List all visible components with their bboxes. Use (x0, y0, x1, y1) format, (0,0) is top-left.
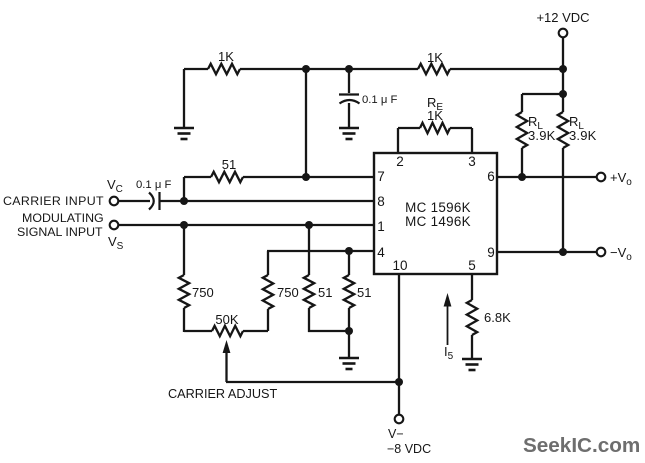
svg-text:MC 1596K: MC 1596K (405, 200, 471, 215)
node top-rail / bypass cap (345, 65, 353, 73)
svg-text:10: 10 (392, 258, 407, 273)
pin 4 label (377, 245, 385, 260)
wire bypass cap top lead (348, 69, 350, 93)
svg-text:51: 51 (222, 157, 236, 172)
wire RL right top lead (562, 94, 564, 112)
wire wiper to V- node (226, 381, 399, 383)
terminal V- (395, 415, 404, 424)
resistor 750 (left) (179, 275, 214, 308)
wire 750 left to pot (183, 308, 185, 332)
ground (51 resistors) (339, 358, 359, 369)
op-amp/IC U1 MC1596K box (374, 153, 497, 274)
wire pin9 rail (497, 251, 597, 253)
wire RL right to pin9 node (562, 148, 564, 252)
wire 51 bottom L to ground node (308, 308, 349, 332)
wire pin8 rail (161, 200, 375, 202)
label MODULATING (22, 211, 104, 225)
svg-text:V−: V− (388, 427, 404, 441)
svg-text:1K: 1K (427, 108, 443, 123)
svg-text:8: 8 (377, 194, 385, 209)
svg-text:+12 VDC: +12 VDC (536, 10, 589, 25)
svg-text:750: 750 (192, 285, 214, 300)
wire Vs node down to 750 (183, 225, 185, 275)
terminal Vs modulating input (108, 221, 124, 252)
svg-text:7: 7 (377, 169, 385, 184)
svg-text:1: 1 (377, 219, 385, 234)
wire top rail middle (240, 68, 418, 70)
wire RL left bottom lead (521, 148, 523, 177)
power terminal +12 VDC (536, 10, 589, 37)
svg-text:1K: 1K (218, 49, 234, 64)
wire 51 bottom lead (348, 308, 350, 331)
capacitor 0.1uF (bypass) (339, 94, 397, 106)
svg-text:2: 2 (396, 154, 404, 169)
svg-text:3: 3 (468, 154, 476, 169)
svg-text:9: 9 (487, 245, 495, 260)
svg-text:−8 VDC: −8 VDC (387, 442, 431, 456)
svg-text:CARRIER ADJUST: CARRIER ADJUST (168, 387, 278, 401)
label CARRIER ADJUST (168, 387, 278, 401)
wire RE left (398, 127, 420, 129)
wire bypass cap bottom lead (348, 103, 350, 127)
wire pot right lead (243, 330, 268, 332)
node top-rail / pin7 branch (302, 65, 310, 73)
terminal Vc carrier input (107, 177, 123, 205)
node Vs / 750 drop (180, 221, 188, 229)
resistor 51 (pin4 leg) (344, 275, 372, 308)
svg-text:5: 5 (468, 258, 476, 273)
node RL branch (559, 90, 567, 98)
pin 7 label (377, 169, 385, 184)
wire +12 VDC drop (562, 37, 564, 69)
pin 5 label (468, 258, 476, 273)
node pin6 / RL (518, 173, 526, 181)
wire pin7 rail right (243, 176, 374, 178)
potentiometer 50K (212, 312, 243, 336)
node pin7 / bias (302, 173, 310, 181)
ground (6.8K) (462, 359, 482, 370)
current arrow I5 (444, 293, 454, 362)
node V- junction (395, 378, 403, 386)
ground (top-left) (174, 128, 194, 139)
pin 10 label (392, 258, 407, 273)
svg-text:50K: 50K (215, 312, 238, 327)
wire pin4-51 top lead (348, 251, 350, 275)
wire 51 left-end drop to Vc node (183, 177, 185, 201)
pin 2 label (396, 154, 404, 169)
wire pin1-51 top lead (308, 225, 310, 275)
pin 8 label (377, 194, 385, 209)
wire 750 right to pin4 rail (267, 251, 269, 275)
wire pin6 rail (497, 176, 597, 178)
resistor 51 (carrier bias) (211, 157, 243, 182)
wire RL branch horizontal (522, 93, 563, 95)
pin 9 label (487, 245, 495, 260)
wire bias drop to pin 7 rail (305, 69, 307, 177)
resistor 51 (pin1 leg) (304, 275, 333, 308)
wire pin1 rail (118, 224, 374, 226)
label -8 VDC (387, 442, 431, 456)
node pin9 / RL (559, 248, 567, 256)
node Vc / 51 drop (180, 197, 188, 205)
wire pin5 drop (471, 274, 473, 300)
svg-text:1K: 1K (427, 50, 443, 65)
svg-text:51: 51 (357, 285, 371, 300)
node top-rail / +12 (559, 65, 567, 73)
wire to ground (51s) (348, 331, 350, 357)
pin 3 label (468, 154, 476, 169)
resistor 1K (right) (418, 50, 450, 74)
wire pin3 stub (471, 128, 473, 153)
svg-text:SeekIC.com: SeekIC.com (523, 434, 640, 457)
capacitor 0.1uF (coupling) (136, 179, 171, 210)
wire V- drop (398, 382, 400, 415)
resistor RE 1K (420, 95, 450, 133)
wire Vc to coupling cap (118, 200, 150, 202)
wire pin7 rail left (184, 176, 211, 178)
pot wiper arrow (223, 340, 231, 382)
pin 6 label (487, 169, 495, 184)
resistor 6.8K (467, 300, 511, 335)
label V- (388, 427, 404, 441)
resistor 750 (right) (263, 275, 299, 309)
ground (bypass cap) (339, 128, 359, 139)
node 51s junction (345, 327, 353, 335)
wire RE right (450, 127, 472, 129)
wire top rail right end (450, 68, 563, 70)
wire pin10 drop (398, 274, 400, 382)
svg-text:4: 4 (377, 245, 385, 260)
svg-text:0.1 μ F: 0.1 μ F (136, 179, 171, 191)
svg-text:3.9K: 3.9K (528, 128, 556, 143)
svg-text:MODULATING: MODULATING (22, 211, 104, 225)
svg-text:CARRIER INPUT: CARRIER INPUT (3, 194, 104, 208)
resistor RL 3.9K (right) (558, 112, 597, 148)
node pin4 / 51 drop (345, 247, 353, 255)
label CARRIER INPUT (3, 194, 104, 208)
wire +12 rail between nodes (562, 69, 564, 94)
terminal +Vo (597, 170, 633, 188)
wire pot left lead (184, 330, 212, 332)
resistor RL 3.9K (left) (517, 112, 556, 148)
wire top rail left end (184, 68, 208, 70)
svg-text:6.8K: 6.8K (484, 310, 511, 325)
label SIGNAL INPUT (17, 225, 103, 239)
svg-text:SIGNAL INPUT: SIGNAL INPUT (17, 225, 103, 239)
wire 6.8K to ground (471, 335, 473, 358)
svg-text:6: 6 (487, 169, 495, 184)
svg-text:3.9K: 3.9K (569, 128, 597, 143)
wire pin4 rail (267, 250, 374, 252)
pin 1 label (377, 219, 385, 234)
svg-text:0.1 μ F: 0.1 μ F (362, 94, 397, 106)
watermark SeekIC.com (523, 434, 640, 457)
node pin1 / 51 drop (305, 221, 313, 229)
wire 750 right bottom lead (267, 309, 269, 331)
terminal -Vo (597, 245, 633, 263)
wire ground drop left (183, 69, 185, 127)
svg-text:750: 750 (277, 285, 299, 300)
svg-text:MC 1496K: MC 1496K (405, 214, 471, 229)
wire pin2 stub (397, 128, 399, 153)
wire RL left top lead (521, 94, 523, 112)
resistor 1K (left) (208, 49, 240, 74)
svg-text:51: 51 (318, 285, 332, 300)
